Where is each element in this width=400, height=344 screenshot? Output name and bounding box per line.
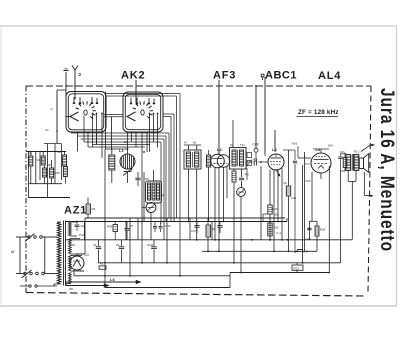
- svg-text:W6: W6: [47, 163, 52, 167]
- nested coupling wires: [106, 93, 180, 95]
- svg-text:h7: h7: [184, 141, 188, 145]
- switch rotor 2: [141, 110, 144, 115]
- svg-text:P-4: P-4: [277, 231, 282, 235]
- mid cluster drops: [143, 172, 145, 222]
- bus y276: [74, 275, 230, 277]
- bus y251: [202, 250, 317, 252]
- svg-text:h9: h9: [193, 141, 197, 145]
- series coupling cap C4x: [246, 161, 253, 163]
- bus links: [286, 218, 288, 222]
- wires between boxes: [105, 92, 107, 150]
- top cap on secondary: [75, 222, 77, 225]
- coil W3: [43, 168, 47, 177]
- wire AF3 label drop: [218, 80, 220, 154]
- B+ from rectifier: [84, 222, 86, 255]
- coil W5: [63, 155, 67, 166]
- C4b caps pair: [154, 222, 156, 226]
- svg-text:C11b: C11b: [164, 224, 171, 228]
- svg-text:C4b: C4b: [306, 237, 312, 241]
- svg-text:R6: R6: [92, 207, 96, 211]
- svg-text:W1: W1: [72, 243, 76, 247]
- mid drops: [207, 218, 209, 225]
- trimmer pads right of T2: [247, 153, 251, 158]
- svg-text:6V2: 6V2: [292, 142, 298, 146]
- svg-text:R45: R45: [107, 225, 113, 229]
- rectifier pins: [73, 269, 75, 276]
- svg-text:AL4: AL4: [318, 70, 341, 82]
- switch rotor 1: [84, 110, 87, 115]
- svg-text:Pur: Pur: [306, 162, 310, 166]
- rectifier tube U1: [70, 256, 84, 270]
- band switch S1 (left): [66, 92, 106, 133]
- svg-text:W6: W6: [69, 287, 73, 291]
- svg-text:R9: R9: [145, 177, 149, 181]
- AF3 pin drops: [214, 168, 216, 240]
- resistor R6: [87, 198, 89, 205]
- svg-text:L2: L2: [217, 147, 222, 152]
- antenna terminal: [74, 70, 76, 86]
- box2 inner drops: [149, 114, 151, 153]
- coil W2: [41, 156, 45, 165]
- ABC1 pin drops: [269, 170, 271, 206]
- drops left: [104, 198, 106, 288]
- svg-text:ZF = 128 kHz: ZF = 128 kHz: [298, 109, 339, 116]
- coil small left: [109, 155, 115, 170]
- C5 cap: [126, 222, 128, 228]
- svg-text:1: 1: [75, 97, 77, 101]
- misc verticals: [125, 222, 127, 240]
- svg-text:Pu4: Pu4: [79, 233, 84, 237]
- wire AK2 label drop: [135, 80, 137, 103]
- box2 top pin stubs: [130, 98, 132, 104]
- box1 inner drops: [83, 116, 85, 142]
- svg-text:R1: R1: [100, 262, 104, 266]
- earth terminal: [65, 72, 67, 86]
- left coil group feed: [26, 151, 66, 153]
- right lower verticals: [291, 210, 293, 240]
- trimmer under L1: [124, 171, 132, 173]
- svg-text:W1b: W1b: [54, 171, 60, 175]
- cap C4b: [294, 150, 296, 160]
- switch assembly frame: [56, 90, 58, 143]
- transformer core: [63, 221, 65, 286]
- AF3 grid coil: [207, 155, 211, 167]
- dashed chassis border: [26, 85, 371, 87]
- svg-text:C2y: C2y: [340, 150, 346, 154]
- AL4 pin drops: [311, 172, 313, 221]
- padder trimmer circle: [146, 203, 156, 213]
- svg-text:4b: 4b: [58, 150, 62, 154]
- box1 cross wires: [88, 146, 145, 148]
- R26 bracket: [309, 220, 317, 222]
- transformer taps: [57, 221, 60, 223]
- svg-text:AF3: AF3: [213, 70, 236, 82]
- T2 lower parts: [233, 169, 235, 171]
- svg-text:C1M: C1M: [147, 243, 154, 247]
- T1 drops: [187, 169, 189, 222]
- svg-text:D9: D9: [124, 140, 128, 144]
- heater line L6: [66, 281, 140, 283]
- svg-text:L4: L4: [316, 147, 321, 152]
- label ABC1: [261, 74, 264, 77]
- coil W1: [29, 156, 33, 166]
- bus y240: [66, 239, 352, 241]
- svg-text:Ru: Ru: [284, 181, 288, 185]
- svg-text:C1: C1: [93, 243, 97, 247]
- svg-text:C1: C1: [116, 243, 120, 247]
- cap C1 a: [98, 240, 100, 246]
- cap C1 b: [121, 240, 123, 246]
- voltage selector row 2: [16, 273, 25, 275]
- box2 pin drops: [127, 132, 129, 149]
- svg-text:C47: C47: [191, 229, 197, 233]
- svg-text:4A: 4A: [161, 193, 165, 197]
- svg-text:T4x: T4x: [240, 143, 245, 147]
- svg-text:C4b: C4b: [291, 196, 297, 200]
- wire ABC1 drops: [262, 77, 264, 81]
- svg-text:C48: C48: [253, 142, 259, 146]
- svg-text:Af: Af: [11, 250, 14, 254]
- svg-text:ABC1: ABC1: [265, 70, 297, 82]
- CxP electrolytic: [302, 248, 304, 251]
- band switch S2 (right): [123, 92, 163, 132]
- lower contacts: [29, 285, 31, 287]
- left column wires: [27, 152, 29, 198]
- svg-text:L6: L6: [110, 277, 115, 282]
- svg-text:S1b: S1b: [306, 179, 311, 183]
- oscillator coil box: [146, 181, 162, 203]
- svg-text:AZ1: AZ1: [64, 205, 87, 217]
- selector link: [44, 237, 46, 274]
- page scan edge frame: [0, 25, 397, 27]
- cap C1M: [153, 240, 155, 246]
- IF transformer T1: [184, 150, 201, 169]
- svg-text:6x: 6x: [46, 128, 50, 132]
- resistor Ru: [288, 150, 290, 186]
- svg-text:R23: R23: [294, 266, 300, 270]
- cap 2xB: [76, 222, 78, 225]
- svg-text:Jura 16 A, Menuetto: Jura 16 A, Menuetto: [377, 88, 399, 252]
- svg-text:R11: R11: [354, 150, 359, 154]
- svg-text:L3: L3: [272, 147, 277, 152]
- R23 box: [296, 263, 298, 265]
- voltage selector row 1: [16, 236, 29, 238]
- bus y272: [230, 272, 329, 274]
- R15 resistor: [263, 213, 268, 215]
- power transformer primary: [57, 222, 60, 284]
- detector drops: [260, 166, 262, 240]
- box1 top pin stubs: [73, 97, 75, 104]
- R1 resistor low: [99, 266, 106, 269]
- bus y218: [85, 217, 285, 219]
- svg-text:R1b: R1b: [273, 207, 279, 211]
- svg-text:62V: 62V: [328, 144, 333, 148]
- coil W4: [50, 168, 54, 178]
- bus y288: [105, 287, 230, 289]
- svg-text:S1: S1: [37, 158, 41, 162]
- svg-text:R15: R15: [274, 226, 280, 230]
- svg-text:AK2: AK2: [121, 70, 145, 82]
- svg-text:43: 43: [29, 152, 33, 156]
- bus y263: [98, 262, 341, 264]
- box1 pin drops: [70, 132, 72, 133]
- coil W6: [63, 167, 67, 177]
- border terminal marks: [370, 144, 375, 146]
- capacitor C6: [137, 172, 139, 178]
- bus y221 main: [66, 221, 287, 223]
- long right verticals: [302, 165, 304, 263]
- speaker: [359, 158, 363, 169]
- svg-text:R26: R26: [320, 228, 326, 232]
- svg-text:D8: D8: [274, 213, 278, 217]
- IF transformer T2: [230, 148, 247, 170]
- junction dots: [104, 221, 106, 223]
- secondary windings: [69, 222, 72, 236]
- svg-text:CxP: CxP: [303, 250, 308, 254]
- trimmer circle under T2: [237, 188, 246, 197]
